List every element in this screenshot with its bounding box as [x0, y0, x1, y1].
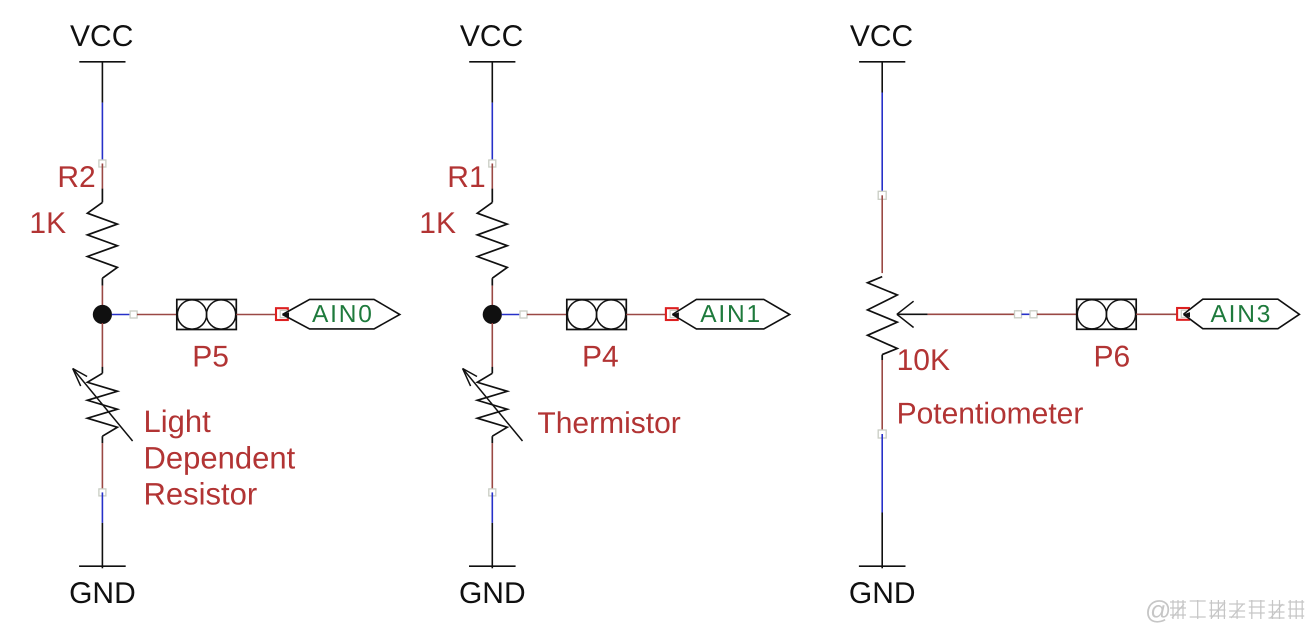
sensor lead top [491, 367, 493, 373]
svg-text:@: @ [1145, 595, 1171, 625]
svg-text:VCC: VCC [70, 20, 133, 53]
wire connector to terminal (AIN0) [236, 314, 276, 316]
label P4 [582, 341, 619, 374]
wire VCC bar to pin (black part) [881, 62, 883, 93]
wire to resistor (dark red) [101, 164, 103, 190]
wire (blue segment) [881, 93, 883, 192]
resistor R2 body (1K) [87, 202, 117, 278]
pin-end marker [130, 311, 137, 318]
wire resistor to junction node [101, 286, 103, 306]
wire junction to sensor [491, 323, 493, 367]
potentiometer wiper arrow [897, 301, 928, 327]
connector P5 (2-pin header) [177, 300, 237, 330]
ground symbol [69, 566, 136, 610]
wire connector to terminal (AIN3) [1136, 313, 1177, 315]
watermark @稀土掘金技术社区 [1145, 595, 1304, 625]
wire junction to connector (blue segment) [502, 314, 520, 316]
svg-text:GND: GND [849, 577, 916, 610]
label Potentiometer [897, 398, 1084, 431]
label Thermistor [537, 407, 680, 440]
svg-text:GND: GND [69, 577, 136, 610]
label R1 [447, 161, 485, 194]
svg-text:P4: P4 [582, 341, 619, 374]
wire junction to sensor [101, 323, 103, 367]
potentiometer RV body (10K) [868, 277, 898, 355]
pin-end marker [878, 191, 886, 199]
value label 1K (R2) [29, 207, 66, 240]
wire sensor to gnd (dark red) [101, 443, 103, 492]
terminal square (AIN1) [666, 308, 678, 320]
svg-text:10K: 10K [897, 344, 950, 377]
wire VCC bar to pin (black part) [101, 62, 103, 103]
wire to GND (black) [491, 523, 493, 568]
pin-end marker [520, 311, 527, 318]
terminal square (AIN0) [276, 308, 288, 320]
power VCC net label (R2 column) [70, 20, 133, 62]
resistor R2 lead bottom [101, 278, 103, 285]
sensor body (LDR) [87, 373, 117, 436]
pin-end marker [489, 489, 496, 496]
node junction dot (AIN0) [93, 305, 112, 324]
svg-text:R1: R1 [447, 161, 485, 194]
svg-text:AIN0: AIN0 [312, 301, 374, 328]
wire to potentiometer (dark red) [881, 195, 883, 273]
wire sensor to gnd (dark red) [491, 443, 493, 492]
node junction dot (AIN1) [483, 305, 502, 324]
svg-text:Potentiometer: Potentiometer [897, 398, 1084, 431]
wire (blue segment) [101, 492, 103, 523]
wire (blue segment) [1022, 313, 1033, 315]
terminal square (AIN3) [1177, 308, 1189, 320]
pin-end marker [1015, 311, 1022, 318]
svg-text:R2: R2 [57, 161, 95, 194]
svg-text:P6: P6 [1094, 341, 1131, 374]
net flag AIN3 [1183, 299, 1299, 329]
resistor R1 lead bottom [491, 278, 493, 285]
wire pot to gnd (dark red) [881, 360, 883, 430]
net flag AIN0 [282, 299, 400, 329]
resistor R2 lead top [101, 189, 103, 203]
wire connector to terminal (AIN1) [626, 314, 666, 316]
power VCC net label (RV1 column) [850, 20, 913, 62]
ground symbol [459, 566, 526, 610]
svg-text:P5: P5 [192, 341, 229, 374]
sensor arrow [73, 369, 133, 442]
label P6 [1094, 341, 1131, 374]
pin-end marker [489, 160, 496, 167]
wire VCC bar to pin (black part) [491, 62, 493, 103]
wire resistor to junction node [491, 286, 493, 306]
ground symbol [849, 566, 916, 610]
pin-end marker [99, 160, 106, 167]
value label 10K [897, 344, 950, 377]
svg-text:AIN3: AIN3 [1211, 301, 1273, 328]
svg-text:Light: Light [144, 404, 212, 439]
wire to resistor (dark red) [491, 164, 493, 190]
sensor lead top [101, 367, 103, 373]
svg-text:Resistor: Resistor [144, 476, 258, 511]
wire to connector (dark red) [137, 314, 177, 316]
sensor lead bottom [101, 436, 103, 443]
svg-text:VCC: VCC [850, 20, 913, 53]
svg-text:GND: GND [459, 577, 526, 610]
wire (blue segment) [881, 434, 883, 513]
wire (blue segment) [491, 492, 493, 523]
net flag AIN1 [672, 299, 790, 329]
connector P6 (2-pin header) [1077, 299, 1137, 329]
wire to GND (black) [101, 523, 103, 568]
svg-text:Thermistor: Thermistor [537, 407, 680, 440]
label R2 [57, 161, 95, 194]
potentiometer lead bottom [881, 355, 883, 360]
wire wiper to connector (dark red) [928, 313, 1015, 315]
label P5 [192, 341, 229, 374]
svg-text:VCC: VCC [460, 20, 523, 53]
wire to connector (dark red) [1037, 313, 1077, 315]
svg-text:AIN1: AIN1 [700, 301, 762, 328]
svg-text:1K: 1K [419, 207, 456, 240]
wire to connector (dark red) [527, 314, 567, 316]
resistor R1 body (1K) [477, 202, 507, 278]
sensor arrow [463, 369, 523, 442]
value label 1K (R1) [419, 207, 456, 240]
wire (blue segment) [101, 103, 103, 163]
pin-end marker [878, 430, 886, 438]
pin-end marker [99, 489, 106, 496]
wire to GND (black) [881, 513, 883, 569]
pin-end marker [1030, 311, 1037, 318]
sensor lead bottom [491, 436, 493, 443]
svg-text:Dependent: Dependent [144, 441, 296, 476]
svg-text:1K: 1K [29, 207, 66, 240]
connector P4 (2-pin header) [567, 300, 627, 330]
power VCC net label (R1 column) [460, 20, 523, 62]
wire (blue segment) [491, 103, 493, 163]
wire junction to connector (blue segment) [112, 314, 130, 316]
resistor R1 lead top [491, 189, 493, 203]
label Light Dependent Resistor [144, 404, 296, 511]
sensor body (thermistor) [477, 373, 507, 436]
